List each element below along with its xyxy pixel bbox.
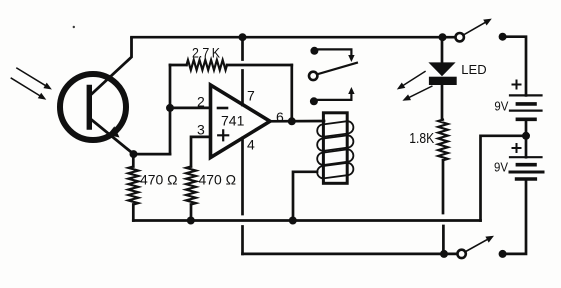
LED cathode bar (429, 77, 457, 85)
switch S1 dot (499, 33, 507, 41)
battery B2 plus sign (513, 144, 521, 152)
LED D1 triangle (428, 62, 455, 76)
relay contact NO dot (310, 97, 318, 105)
resistor 2.7K zigzag (187, 60, 228, 70)
wire LED to 1.8K (441, 85, 444, 120)
op-amp minus sign (218, 107, 227, 110)
wire B2 to switch S2 (503, 179, 526, 254)
node lower bus / 1.8K (440, 250, 448, 258)
top bus wire (132, 36, 456, 39)
node emitter junction (130, 150, 138, 158)
svg-text:741: 741 (221, 113, 245, 129)
wire lower bus to S2 (444, 253, 457, 256)
battery B2 plates (510, 156, 542, 158)
battery B1 plates (510, 95, 542, 110)
wire S1 to battery + (503, 37, 526, 96)
node coil return on bus (289, 217, 297, 225)
wire feedback vertical (290, 65, 293, 121)
node 470#2 on bus (187, 217, 195, 225)
battery B1 plus sign (513, 81, 521, 89)
svg-text:3: 3 (197, 122, 205, 138)
relay contact NC wire (314, 49, 351, 58)
node: LED branch on top bus (439, 33, 447, 41)
resistor 2.7K leads (170, 64, 292, 67)
relay NC arrowhead (348, 55, 354, 62)
light arrows into phototransistor (11, 68, 47, 97)
wire pin 3 (191, 137, 211, 167)
speck (73, 26, 75, 28)
svg-text:470 Ω: 470 Ω (140, 172, 178, 188)
LED light arrows (402, 72, 432, 99)
relay coil K1 body (323, 113, 347, 184)
switch S2 arrowhead (485, 236, 494, 243)
svg-text:7: 7 (247, 88, 255, 104)
relay NO arrowhead (348, 87, 354, 94)
wire emitter junction to vertical (134, 153, 171, 156)
relay coil turns (317, 121, 353, 178)
switch S2 dot (499, 250, 507, 258)
node pin2 junction (166, 104, 174, 112)
wire coil return (293, 172, 317, 221)
svg-text:9V: 9V (494, 100, 509, 114)
node mid tap (522, 132, 530, 140)
relay common terminal (309, 72, 317, 80)
svg-text:1.8K: 1.8K (409, 130, 434, 147)
wire pin 4 down (break at mid bus) (241, 138, 244, 254)
op-amp plus sign (218, 130, 228, 140)
phototransistor collector lead (90, 38, 132, 96)
wire op-amp output pin 6 (268, 120, 324, 123)
lower bus wire (243, 253, 445, 256)
switch S1 arrowhead (483, 19, 492, 26)
svg-text:470 Ω: 470 Ω (199, 172, 237, 188)
svg-text:2.7 K: 2.7 K (192, 45, 221, 61)
svg-text:6: 6 (276, 109, 284, 125)
resistor 470 ohm #1 zigzag (128, 167, 138, 205)
svg-text:4: 4 (247, 136, 255, 152)
mid ground bus wire (133, 219, 480, 222)
relay armature (317, 63, 357, 75)
svg-text:LED: LED (461, 62, 486, 77)
wire B1 to mid tap (525, 119, 528, 157)
phototransistor Q1 circle (60, 74, 126, 140)
wire mid tap to ground bus (481, 136, 527, 221)
svg-text:9V: 9V (494, 160, 509, 174)
phototransistor base bar (87, 88, 92, 128)
node output/feedback (288, 117, 296, 125)
op-amp U1 741 triangle (211, 85, 271, 158)
phototransistor emitter lead (90, 119, 134, 155)
resistor 1.8K zigzag (438, 120, 448, 161)
resistor 470 ohm #2 zigzag (186, 167, 196, 205)
resistor 470 #1 leads (132, 154, 135, 220)
wire pin 7 up (break at feedback crossing) (241, 37, 244, 105)
switch S2 arm (466, 238, 491, 252)
switch S1 arm (464, 21, 489, 35)
switch S2 terminal circle (457, 250, 465, 258)
switch S1 terminal circle (456, 33, 464, 41)
wire pin 2 (170, 107, 211, 110)
wire 1.8K down (break at mid bus) (442, 160, 445, 254)
resistor 470 #2 lower lead (190, 205, 193, 221)
svg-text:2: 2 (197, 94, 205, 110)
wire inverting node vertical (169, 65, 172, 154)
wire LED anode (441, 37, 444, 62)
emitter arrowhead (108, 126, 120, 137)
relay contact NC dot (310, 47, 318, 55)
relay contact NO wire (314, 91, 352, 100)
node: pin7 to top bus (239, 33, 247, 41)
